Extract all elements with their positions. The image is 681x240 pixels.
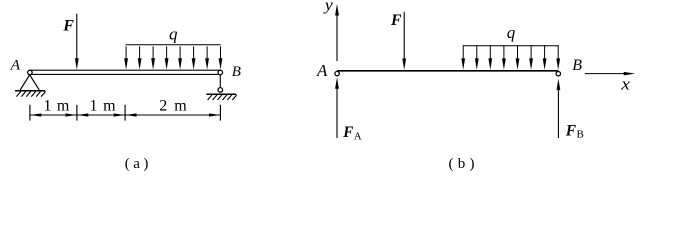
- reaction F_A arrow: [335, 77, 339, 138]
- pin support at A : hatching: [16, 91, 45, 96]
- dimension line 2 m: [125, 113, 220, 116]
- svg-text:B: B: [232, 64, 241, 80]
- dimension line 1 m (first): [30, 113, 77, 116]
- roller support at B : ground line: [206, 93, 236, 95]
- distributed load q arrows: [461, 45, 560, 70]
- roller support at B : link: [219, 75, 221, 88]
- distributed load q top line: [126, 44, 221, 46]
- distributed load q arrows: [124, 46, 222, 69]
- svg-text:x: x: [620, 74, 630, 93]
- svg-text:1m: 1m: [90, 97, 117, 114]
- svg-text:q: q: [169, 24, 178, 43]
- roller support at B : hatching: [208, 95, 237, 100]
- x axis: [585, 72, 635, 76]
- svg-text:1m: 1m: [44, 97, 70, 114]
- svg-text:B: B: [572, 57, 582, 74]
- hinge circle at A: [335, 71, 339, 75]
- reaction F_B arrow: [557, 79, 561, 138]
- roller support at B : hinge circle: [218, 70, 223, 75]
- y axis: [335, 4, 339, 61]
- svg-text:A: A: [10, 58, 21, 74]
- pin support at A : triangle: [20, 75, 39, 90]
- svg-text:A: A: [316, 61, 328, 80]
- pin support at A : hinge circle: [28, 70, 33, 75]
- svg-text:F: F: [62, 18, 74, 35]
- svg-text:F: F: [565, 123, 577, 140]
- force F arrow: [75, 14, 79, 70]
- svg-text:F: F: [342, 124, 353, 141]
- svg-text:q: q: [507, 23, 516, 42]
- force F arrow: [402, 12, 406, 70]
- beam AB (free body): [337, 70, 558, 72]
- svg-text:(b): (b): [448, 156, 474, 172]
- svg-text:A: A: [354, 130, 362, 142]
- svg-text:y: y: [323, 0, 334, 14]
- hinge circle at B: [556, 72, 560, 76]
- beam AB: [30, 70, 221, 74]
- distributed load q top line: [463, 45, 558, 47]
- roller support at B : roller circle: [218, 88, 223, 93]
- dimension extension ticks: [30, 105, 221, 121]
- svg-text:(a): (a): [125, 156, 149, 172]
- dimension line 1 m (second): [77, 113, 125, 116]
- svg-text:F: F: [390, 12, 402, 29]
- svg-text:B: B: [577, 128, 584, 140]
- pin support at A : ground line: [15, 90, 45, 92]
